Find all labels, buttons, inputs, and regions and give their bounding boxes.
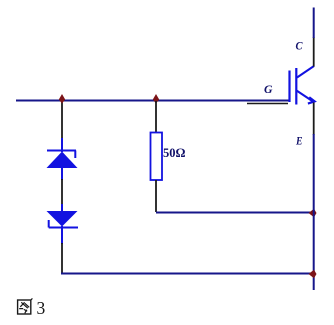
svg-text:E: E <box>295 134 302 148</box>
figure caption: character TU (figure) drawn as strokes <box>18 298 33 314</box>
svg-text:50Ω: 50Ω <box>163 146 186 160</box>
bottom rail wire (emitter net) <box>61 273 314 275</box>
collector pin (black) <box>313 37 315 67</box>
junction node at top rail / zener branch <box>59 94 65 104</box>
wire: left branch lower segment <box>61 243 63 273</box>
junction node at emitter / bottom rail <box>309 270 317 279</box>
emitter wire (right side down) <box>313 134 315 290</box>
figure caption: numeral 3 <box>37 298 46 318</box>
zener diode D1 (cathode up) <box>47 138 78 180</box>
gate pin (black) of transistor <box>247 103 288 105</box>
wire: left branch upper segment <box>61 101 63 139</box>
wire: resistor bottom to emitter <box>156 212 314 214</box>
svg-text:C: C <box>296 39 304 53</box>
pin label G (gate) <box>264 82 273 96</box>
zener diode D2 (cathode down) <box>47 204 79 244</box>
emitter pin (black) <box>313 103 315 136</box>
resistor R (50 ohm) body <box>151 133 163 181</box>
collector wire (top) <box>313 8 315 39</box>
pin label C (collector) <box>296 39 304 53</box>
svg-text:3: 3 <box>37 298 46 318</box>
transistor Q (IGBT) symbol <box>290 66 315 105</box>
resistor top pin (black) <box>155 101 157 133</box>
pin label E (emitter) <box>295 134 302 148</box>
svg-text:G: G <box>264 82 273 96</box>
resistor bottom pin (black) <box>155 180 157 212</box>
top rail wire (gate net) <box>16 100 289 102</box>
wire between D1 and D2 <box>61 179 63 205</box>
resistor value label 50 ohm <box>163 146 186 160</box>
junction node at emitter / resistor wire <box>309 209 317 218</box>
junction node at top rail / resistor branch <box>153 94 159 104</box>
